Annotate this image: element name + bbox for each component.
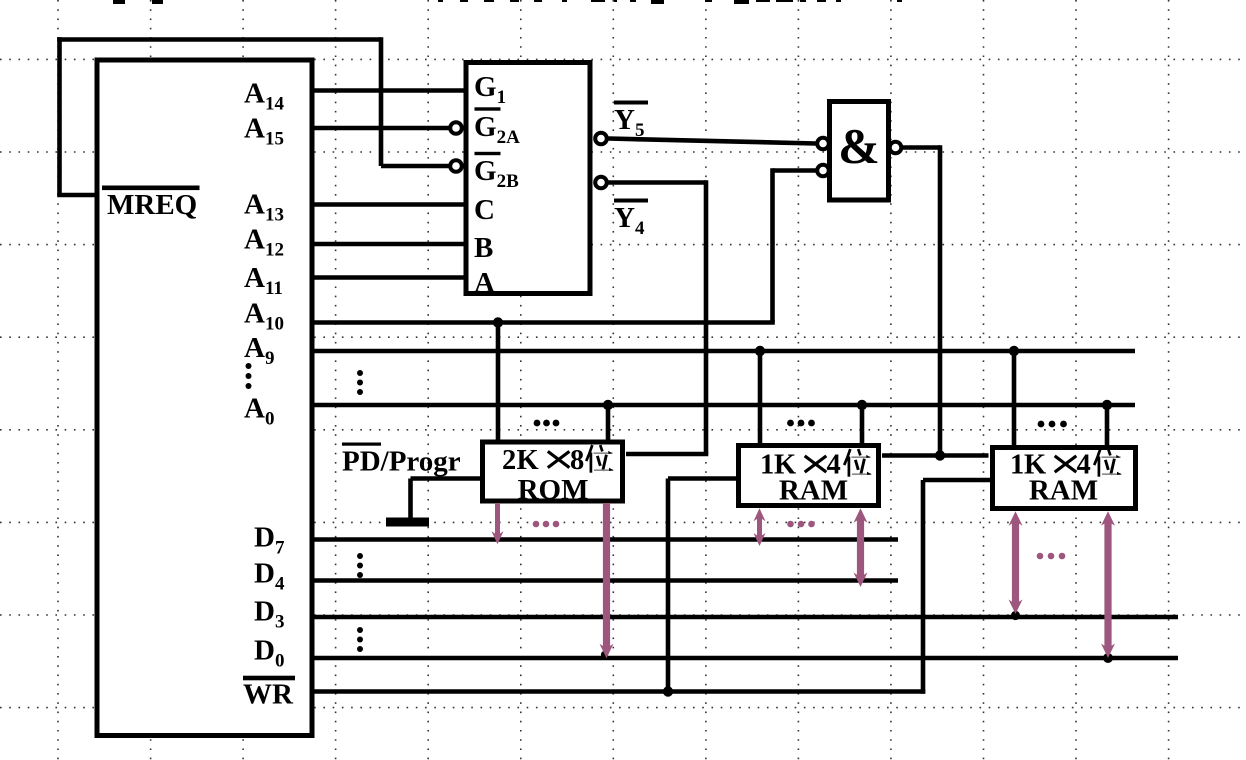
wire AND output horizontal xyxy=(903,145,941,150)
wire A11 to A xyxy=(314,275,464,280)
bubble G2B input xyxy=(450,160,462,172)
wire MREQ loop top horizontal xyxy=(57,37,381,42)
label G2A (overline) xyxy=(475,107,501,110)
data arrow ROM D7 xyxy=(492,503,504,544)
label G2B (overline) xyxy=(475,152,501,155)
wire AND input 2 vertical from A10 xyxy=(770,168,775,322)
wire Y4 output horizontal xyxy=(609,180,707,185)
wire A14 to G1 xyxy=(314,88,464,93)
CPU block xyxy=(97,60,312,736)
bubble Y5 output xyxy=(595,133,607,145)
ellipsis between A9 and A0 buses xyxy=(357,370,363,395)
wire WR tap RAM2 vertical xyxy=(921,480,926,694)
data arrow ROM D0 xyxy=(600,503,614,658)
wire D7 bus xyxy=(314,537,898,542)
svg-text:RAM: RAM xyxy=(1029,475,1098,507)
ellipsis address taps RAM2 xyxy=(1038,421,1067,428)
wire WR tap RAM2 horizontal xyxy=(923,478,990,483)
ellipsis between D3 and D0 xyxy=(357,627,363,652)
label PD/Progr (overline over PD) xyxy=(342,443,381,446)
data arrow RAM2 D0 (bidirectional) xyxy=(1101,511,1115,658)
wire MREQ loop left vertical xyxy=(57,37,62,195)
data arrow RAM1 D4 (bidirectional) xyxy=(854,508,868,587)
wire PD vertical xyxy=(408,479,413,518)
wire WR bus xyxy=(314,689,925,694)
junction dot CS xyxy=(935,450,945,460)
wire G2B input xyxy=(381,164,449,169)
wire A9 bus xyxy=(314,349,1135,354)
wire A10 bus xyxy=(314,320,775,325)
bubble Y4 output xyxy=(595,177,607,189)
RAM1 chip 1Kx4 xyxy=(739,446,879,506)
decoder U1 (74LS138) xyxy=(466,63,590,294)
wire A9 tap to RAM1 xyxy=(758,351,763,444)
label MREQ (overline) xyxy=(102,186,200,191)
bubble AND input 1 xyxy=(817,138,829,150)
junction dot WR/RAM1 xyxy=(663,686,673,696)
wire A15 to G2A xyxy=(314,126,449,131)
wire AND input 2 horizontal xyxy=(773,168,817,173)
ellipsis between D7 and D4 xyxy=(357,553,363,578)
svg-text:ROM: ROM xyxy=(518,474,589,506)
ellipsis data RAM1 xyxy=(787,521,815,528)
ellipsis address taps RAM1 xyxy=(787,420,815,427)
bubble AND input 2 xyxy=(817,165,829,177)
wire D3 bus xyxy=(314,615,1178,620)
wire PD to ROM xyxy=(411,476,481,481)
wire A13 to C xyxy=(314,202,464,207)
junction dot A9/RAM1 xyxy=(755,346,765,356)
svg-text:PD/Progr: PD/Progr xyxy=(342,446,461,478)
ellipsis address taps ROM xyxy=(534,420,560,427)
ellipsis data ROM xyxy=(533,521,560,528)
junction dot A0/RAM1 xyxy=(857,400,867,410)
svg-text:MREQ: MREQ xyxy=(107,189,197,221)
ellipsis data RAM2 xyxy=(1037,553,1066,560)
svg-text:WR: WR xyxy=(243,679,294,711)
bubble AND output xyxy=(890,142,902,154)
data arrow RAM1 D7 (bidirectional) xyxy=(754,508,766,546)
wire WR tap RAM1 horizontal xyxy=(668,476,736,481)
wire D0 bus xyxy=(314,656,1178,661)
wire A0 tap to ROM xyxy=(606,405,611,441)
ellipsis between A9 and A0 labels xyxy=(246,363,252,389)
junction dot ROM/D0 xyxy=(601,651,608,658)
svg-text:B: B xyxy=(474,232,493,264)
wire RAM chip-select horizontal xyxy=(882,453,989,458)
wire AND output vertical down xyxy=(938,145,943,455)
svg-text:C: C xyxy=(474,194,495,226)
wire MREQ stub into CPU xyxy=(57,193,96,198)
wire ROM chip-select xyxy=(626,452,708,457)
label Y4 (overline) xyxy=(614,199,648,203)
wire A9 tap to RAM2 xyxy=(1012,351,1017,446)
wire WR tap RAM1 vertical xyxy=(666,479,671,692)
junction dot RAM2/D3 xyxy=(1011,611,1020,620)
ROM chip 2Kx8 xyxy=(483,442,623,501)
wire loop right vertical to G2B xyxy=(379,37,384,166)
svg-text:&: & xyxy=(838,118,880,174)
junction dot A9/RAM2 xyxy=(1009,346,1019,356)
wire Y5 to AND input 1 xyxy=(609,139,817,144)
wire A0 tap to RAM1 xyxy=(860,405,865,444)
AND gate U2 xyxy=(830,102,889,201)
wire A10 tap to ROM xyxy=(496,323,501,442)
bubble G2A input xyxy=(450,122,462,134)
data arrow RAM2 D3 (bidirectional) xyxy=(1009,511,1023,614)
junction dot A0/RAM2 xyxy=(1102,400,1112,410)
junction dot A0/ROM xyxy=(603,400,613,410)
RAM2 chip 1Kx4 xyxy=(993,448,1136,509)
svg-text:RAM: RAM xyxy=(779,475,848,507)
label WR (overline) xyxy=(243,676,295,681)
wire Y4 vertical down xyxy=(704,180,709,454)
junction dot A10/ROM xyxy=(493,317,503,327)
wire A12 to B xyxy=(314,242,464,247)
ground bar xyxy=(386,518,429,527)
junction dot RAM2/D0 xyxy=(1103,653,1113,663)
wire D4 bus xyxy=(314,578,898,583)
label Y5 (overline) xyxy=(614,101,648,105)
wire A0 tap to RAM2 xyxy=(1105,405,1110,446)
wire A0 bus xyxy=(314,403,1135,408)
cut-off caption text fragments at top edge xyxy=(113,0,902,4)
svg-text:A: A xyxy=(474,267,495,299)
